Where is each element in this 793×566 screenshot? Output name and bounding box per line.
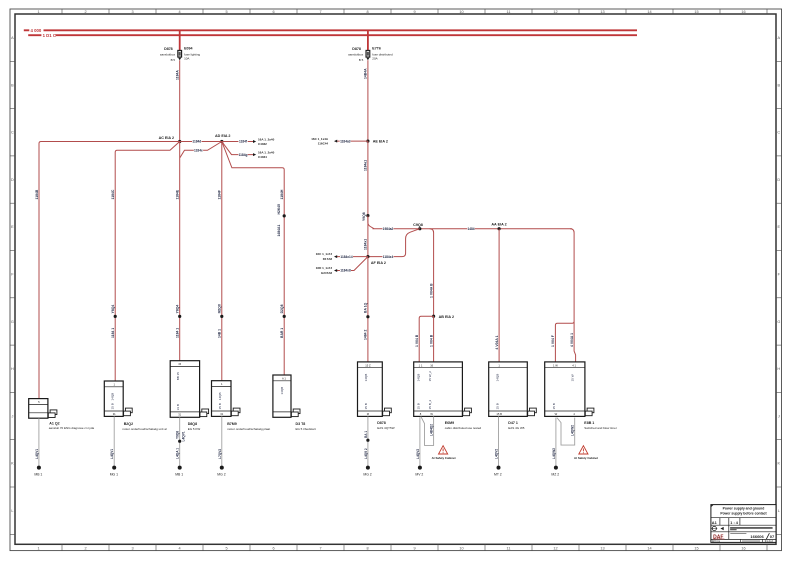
svg-text:10: 10 xyxy=(459,10,463,14)
svg-text:A 1: A 1 xyxy=(282,377,286,381)
svg-text:31 B: 31 B xyxy=(176,404,180,410)
svg-text:1 V04A B: 1 V04A B xyxy=(429,283,433,298)
svg-text:G: G xyxy=(11,320,14,324)
svg-text:J: J xyxy=(11,414,13,418)
svg-text:4 V04A 1: 4 V04A 1 xyxy=(495,335,499,349)
svg-text:1184E: 1184E xyxy=(176,189,180,199)
svg-text:9: 9 xyxy=(413,547,415,551)
svg-text:1484 2: 1484 2 xyxy=(364,330,368,340)
svg-text:10A: 10A xyxy=(184,57,189,61)
svg-text:31-0-2: 31-0-2 xyxy=(765,539,774,543)
svg-text:Power supply before contact: Power supply before contact xyxy=(720,512,767,516)
svg-text:L4QW2: L4QW2 xyxy=(552,448,556,459)
svg-text:4 V04A 1: 4 V04A 1 xyxy=(570,333,574,347)
svg-text:AA EIA 2: AA EIA 2 xyxy=(491,223,506,227)
svg-text:2: 2 xyxy=(84,10,86,14)
svg-text:Y8Q4: Y8Q4 xyxy=(176,305,180,314)
svg-text:E8B 1: E8B 1 xyxy=(584,421,594,425)
svg-text:EAS 4G W5: EAS 4G W5 xyxy=(508,426,525,430)
svg-text:16: 16 xyxy=(741,10,745,14)
svg-text:1184g: 1184g xyxy=(239,153,248,157)
svg-text:16C 1_1x7J: 16C 1_1x7J xyxy=(316,252,333,256)
svg-text:1 D1 C: 1 D1 C xyxy=(43,33,56,38)
svg-text:7: 7 xyxy=(319,547,321,551)
svg-text:AE EIA 2: AE EIA 2 xyxy=(373,140,388,144)
svg-text:L4QV1: L4QV1 xyxy=(35,449,39,459)
svg-text:K: K xyxy=(11,462,14,466)
svg-text:H: H xyxy=(11,367,14,371)
svg-text:L4QV1: L4QV1 xyxy=(110,449,114,459)
svg-text:14QB: 14QB xyxy=(280,387,284,395)
svg-text:166606: 166606 xyxy=(750,534,764,539)
svg-text:C4032: C4032 xyxy=(258,142,267,146)
svg-text:4 1: 4 1 xyxy=(572,363,576,367)
svg-text:EAS 4QY5W: EAS 4QY5W xyxy=(377,426,395,430)
svg-text:1 : 4: 1 : 4 xyxy=(730,521,738,525)
svg-text:G: G xyxy=(777,320,780,324)
svg-text:C9Q8: C9Q8 xyxy=(413,223,423,227)
svg-text:L7QV2: L7QV2 xyxy=(218,449,222,459)
svg-text:E: E xyxy=(11,225,14,229)
svg-text:15: 15 xyxy=(178,362,181,366)
svg-text:D47 1: D47 1 xyxy=(508,421,518,425)
svg-text:13: 13 xyxy=(600,547,604,551)
svg-text:1184B: 1184B xyxy=(35,189,39,199)
svg-text:E: E xyxy=(778,225,781,229)
svg-text:1: 1 xyxy=(37,547,39,551)
svg-text:D8Q8: D8Q8 xyxy=(188,422,197,426)
svg-text:L: L xyxy=(778,509,780,513)
svg-text:5: 5 xyxy=(225,547,227,551)
svg-text:5: 5 xyxy=(225,10,227,14)
svg-text:1184F: 1184F xyxy=(218,190,222,199)
svg-text:15 B: 15 B xyxy=(364,403,368,409)
svg-text:Y9Q8: Y9Q8 xyxy=(176,431,180,439)
svg-text:At Safety Cabinet: At Safety Cabinet xyxy=(432,456,456,460)
svg-text:1184 1: 1184 1 xyxy=(176,328,180,338)
svg-text:aansluitbox: aansluitbox xyxy=(160,53,176,57)
svg-text:1184x4: 1184x4 xyxy=(383,255,394,259)
svg-text:11: 11 xyxy=(507,10,511,14)
svg-text:E094: E094 xyxy=(184,47,192,51)
svg-text:L4QW2: L4QW2 xyxy=(571,425,575,436)
svg-text:1184C: 1184C xyxy=(111,189,115,199)
svg-text:1184x1: 1184x1 xyxy=(364,239,368,250)
svg-text:L4B4Q2: L4B4Q2 xyxy=(430,424,434,436)
svg-text:M2Q6: M2Q6 xyxy=(218,304,222,313)
svg-text:D878: D878 xyxy=(377,421,386,425)
svg-text:1184H: 1184H xyxy=(280,189,284,199)
svg-text:L4QV1: L4QV1 xyxy=(182,431,186,441)
svg-text:MZ 2: MZ 2 xyxy=(551,472,559,476)
svg-text:15 B: 15 B xyxy=(552,403,556,409)
svg-text:W2 t/m: W2 t/m xyxy=(712,539,720,543)
svg-text:MT 2: MT 2 xyxy=(494,472,502,476)
svg-text:L4QA 1: L4QA 1 xyxy=(176,448,180,459)
svg-text:13: 13 xyxy=(600,10,604,14)
svg-text:1184x14: 1184x14 xyxy=(340,255,352,259)
svg-text:motor onderhoud/schakelg unit: motor onderhoud/schakelg unit al xyxy=(122,427,167,431)
svg-text:1984a2: 1984a2 xyxy=(383,227,394,231)
svg-text:14QB: 14QB xyxy=(110,393,114,401)
svg-text:14: 14 xyxy=(647,547,651,551)
svg-text:aansluitbox: aansluitbox xyxy=(348,53,364,57)
svg-text:aansluit 70 ENG diagnose cn ty: aansluit 70 ENG diagnose cn tyda xyxy=(49,426,95,430)
svg-text:3: 3 xyxy=(131,547,133,551)
svg-text:H: H xyxy=(777,367,780,371)
svg-text:2: 2 xyxy=(84,547,86,551)
svg-text:At Safety Cabinet: At Safety Cabinet xyxy=(574,456,598,460)
svg-text:G247A8: G247A8 xyxy=(321,271,333,275)
svg-text:14QB: 14QB xyxy=(364,374,368,382)
svg-text:15 B: 15 B xyxy=(218,403,222,409)
svg-text:Power supply and ground: Power supply and ground xyxy=(723,506,765,510)
svg-text:BB 15: BB 15 xyxy=(176,372,180,381)
svg-text:A: A xyxy=(778,36,781,40)
svg-text:AC EIA 2: AC EIA 2 xyxy=(159,136,174,140)
svg-text:BA 1: BA 1 xyxy=(364,431,368,438)
svg-text:E6M9: E6M9 xyxy=(445,421,454,425)
svg-text:C4034: C4034 xyxy=(258,155,267,159)
svg-text:16D 1_1x7J: 16D 1_1x7J xyxy=(316,266,333,270)
svg-text:B7M9: B7M9 xyxy=(227,422,237,426)
svg-text:A1 Q2: A1 Q2 xyxy=(49,421,59,425)
svg-text:BAR 1: BAR 1 xyxy=(280,328,284,338)
svg-text:15 W_2: 15 W_2 xyxy=(428,371,432,382)
svg-text:MB 1: MB 1 xyxy=(175,472,183,476)
svg-text:16A 1_2x40: 16A 1_2x40 xyxy=(258,151,275,155)
svg-text:14B4A: 14B4A xyxy=(364,68,368,79)
svg-text:1 V04 F: 1 V04 F xyxy=(551,335,555,347)
svg-text:1184f: 1184f xyxy=(239,140,248,144)
svg-text:15 W: 15 W xyxy=(570,374,574,381)
svg-text:1: 1 xyxy=(37,10,39,14)
svg-text:1484A1: 1484A1 xyxy=(277,225,281,237)
svg-text:E7T6: E7T6 xyxy=(372,47,381,51)
svg-text:MB 1: MB 1 xyxy=(34,472,42,476)
svg-text:4: 4 xyxy=(178,547,180,551)
svg-text:116C44: 116C44 xyxy=(318,141,329,145)
svg-text:1184d: 1184d xyxy=(192,140,201,144)
svg-text:7: 7 xyxy=(319,10,321,14)
svg-text:1184A: 1184A xyxy=(176,70,180,80)
svg-text:L4QV2: L4QV2 xyxy=(416,449,420,459)
svg-text:B2Q2: B2Q2 xyxy=(124,422,133,426)
svg-text:16: 16 xyxy=(741,547,745,551)
svg-text:11: 11 xyxy=(507,547,511,551)
svg-text:C: C xyxy=(777,131,780,135)
svg-text:B 5: B 5 xyxy=(359,58,364,62)
svg-text:15 B_2: 15 B_2 xyxy=(428,400,432,410)
svg-text:motor onderhoud/schakelg plaat: motor onderhoud/schakelg plaat xyxy=(227,427,270,431)
svg-text:D: D xyxy=(11,178,14,182)
svg-text:1184a1: 1184a1 xyxy=(364,160,368,171)
svg-text:1484: 1484 xyxy=(467,227,474,231)
svg-text:Switched and blow timer: Switched and blow timer xyxy=(584,426,617,430)
svg-text:D878: D878 xyxy=(352,47,361,51)
svg-text:A: A xyxy=(11,36,14,40)
svg-text:AF EIA 2: AF EIA 2 xyxy=(371,261,386,265)
svg-text:D17A8: D17A8 xyxy=(323,257,333,261)
svg-text:EG 5 t/bedstart: EG 5 t/bedstart xyxy=(296,427,316,431)
svg-text:J: J xyxy=(778,414,780,418)
svg-text:1 V04 B: 1 V04 B xyxy=(429,334,433,347)
svg-text:14QB: 14QB xyxy=(495,374,499,382)
svg-text:1184e: 1184e xyxy=(194,149,203,153)
svg-text:15 B: 15 B xyxy=(417,403,421,409)
svg-text:15: 15 xyxy=(694,547,698,551)
svg-text:1184x8: 1184x8 xyxy=(340,269,351,273)
svg-text:16A 1_2x40: 16A 1_2x40 xyxy=(258,138,275,142)
svg-text:4 000: 4 000 xyxy=(31,28,42,33)
svg-text:Y9Q8: Y9Q8 xyxy=(362,212,366,221)
svg-text:1184a3: 1184a3 xyxy=(340,139,351,143)
svg-text:1 V04 B: 1 V04 B xyxy=(415,334,419,347)
svg-text:15 B: 15 B xyxy=(110,403,114,409)
svg-text:1 W: 1 W xyxy=(553,363,558,367)
svg-text:14QB: 14QB xyxy=(417,374,421,382)
svg-text:16C 1_1x4A: 16C 1_1x4A xyxy=(311,137,329,141)
svg-text:MG 1: MG 1 xyxy=(110,472,118,476)
svg-text:6: 6 xyxy=(272,10,274,14)
svg-text:8: 8 xyxy=(366,10,368,14)
svg-text:20A: 20A xyxy=(372,57,377,61)
svg-text:MV 2: MV 2 xyxy=(415,472,423,476)
svg-text:B: B xyxy=(778,83,781,87)
svg-text:MG 2: MG 2 xyxy=(217,472,225,476)
svg-text:W: W xyxy=(555,412,558,416)
svg-text:6: 6 xyxy=(272,547,274,551)
svg-text:EG 5 KW: EG 5 KW xyxy=(188,427,201,431)
svg-text:15: 15 xyxy=(694,10,698,14)
svg-text:14B 1: 14B 1 xyxy=(218,329,222,338)
svg-text:14QB: 14QB xyxy=(218,393,222,401)
svg-text:AB EIA 2: AB EIA 2 xyxy=(439,315,454,319)
svg-text:14: 14 xyxy=(647,10,651,14)
svg-text:B: B xyxy=(11,83,14,87)
svg-text:D: D xyxy=(777,178,780,182)
svg-text:K: K xyxy=(778,462,781,466)
svg-text:Y8Q4: Y8Q4 xyxy=(111,305,115,314)
svg-text:31: 31 xyxy=(178,413,181,417)
svg-text:8: 8 xyxy=(366,547,368,551)
svg-text:1 1: 1 1 xyxy=(419,363,423,367)
svg-text:MG 2: MG 2 xyxy=(363,472,371,476)
svg-text:12: 12 xyxy=(553,547,557,551)
svg-text:L4Q9 2: L4Q9 2 xyxy=(364,448,368,459)
svg-text:15 B: 15 B xyxy=(495,403,499,409)
svg-text:AD EIA 2: AD EIA 2 xyxy=(215,134,230,138)
svg-text:C: C xyxy=(11,131,14,135)
svg-text:D3 T8: D3 T8 xyxy=(296,422,306,426)
svg-text:3: 3 xyxy=(131,10,133,14)
svg-text:31: 31 xyxy=(220,412,223,416)
svg-text:31: 31 xyxy=(113,412,116,416)
svg-text:A1: A1 xyxy=(712,520,718,525)
svg-text:1184 1: 1184 1 xyxy=(111,328,115,338)
svg-text:D2Q8: D2Q8 xyxy=(280,304,284,313)
svg-text:BA 1Q: BA 1Q xyxy=(364,302,368,313)
svg-text:10: 10 xyxy=(459,547,463,551)
svg-text:L4QV2: L4QV2 xyxy=(495,449,499,459)
svg-text:15 Z: 15 Z xyxy=(365,363,371,367)
svg-text:16: 16 xyxy=(430,363,433,367)
svg-text:9: 9 xyxy=(413,10,415,14)
svg-text:12: 12 xyxy=(553,10,557,14)
svg-text:H2K45: H2K45 xyxy=(277,204,281,215)
svg-text:B 5: B 5 xyxy=(171,58,176,62)
svg-text:W: W xyxy=(430,412,433,416)
svg-text:15 B: 15 B xyxy=(496,412,502,416)
svg-text:D878: D878 xyxy=(164,47,173,51)
svg-text:4: 4 xyxy=(178,10,180,14)
svg-text:cabin distributed use tested: cabin distributed use tested xyxy=(445,426,482,430)
svg-text:L: L xyxy=(11,509,13,513)
